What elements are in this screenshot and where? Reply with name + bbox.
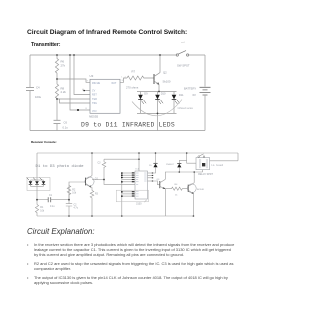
svg-text:SW SPST: SW SPST [177,63,190,67]
transistor Q2 SK100 [154,71,171,85]
capacitor C1 [48,195,55,208]
wire C3 to IC supply column [104,158,139,160]
op-amp IC1 3130 body [135,169,148,206]
battery B1 6V [184,55,211,131]
wire emitter to LED rail [158,84,160,91]
wire base node up to Q1 base [69,182,86,200]
svg-text:2: 2 [125,77,126,79]
diode D5 [149,153,158,173]
wire node A to C1 [37,199,48,201]
svg-text:270 ohms: 270 ohms [126,86,139,90]
svg-text:Infrared series: Infrared series [178,107,194,110]
transmitter heading [31,42,60,48]
photodiode group box [27,178,50,191]
resistor R2 [67,186,77,200]
svg-text:DSCHG: DSCHG [92,82,100,85]
wire photodiode cathode bus [31,185,44,187]
svg-text:D10: D10 [161,91,166,95]
wire TRG net [60,99,91,103]
title [27,29,187,36]
svg-text:RELAY SPDT: RELAY SPDT [198,173,213,176]
resistor R7 [126,69,154,89]
wire IC lower pin 7 [122,193,135,194]
junction squares on ground column [121,172,123,196]
svg-text:BATTERY: BATTERY [184,87,196,91]
wire rail to photodiode group [36,153,38,178]
svg-text:R4: R4 [175,184,179,186]
wire collector to rail [159,55,161,73]
wire photodiode anode bus [31,179,44,181]
photodiode D2 [33,178,39,187]
bullet list [26,241,28,243]
wire Q4 emitter to ground rail [192,194,194,216]
wire receiver bottom rail [37,215,195,217]
svg-text:OUT: OUT [112,82,117,85]
svg-text:6V: 6V [193,93,196,97]
resistor R3 [90,191,98,217]
capacitor C4 [26,86,42,100]
svg-text:D9 to D11 INFRARED LEDS: D9 to D11 INFRARED LEDS [81,121,175,128]
svg-text:R7: R7 [132,69,136,73]
svg-text:1N4007: 1N4007 [166,164,174,166]
svg-text:TRG: TRG [92,102,97,105]
svg-text:R3: R3 [95,193,99,195]
circuit explanation heading [27,227,95,236]
wire RST net [74,55,90,95]
op-amp U3 NE555 body [89,74,120,119]
svg-text:100u: 100u [35,95,42,99]
svg-text:1: 1 [121,77,122,79]
svg-text:C6: C6 [64,120,68,124]
relay RL1 SPDT coil [187,158,214,177]
svg-text:RST: RST [92,94,97,97]
wire C6 branch [56,99,58,131]
wire transmitter top rail [30,54,205,56]
node junction dots transmitter [56,54,161,114]
svg-text:10k: 10k [40,210,45,212]
svg-text:27k: 27k [61,63,66,67]
wire receiver top rail [37,152,238,154]
wire photodiode group to node A [36,186,38,204]
wire IC right pin d [148,181,154,182]
wire Q1 collector to rail [91,153,93,176]
IC pin name ticks left [136,173,139,196]
LED D10 [155,91,166,113]
wire IC left pin 2 [122,175,135,176]
svg-text:D1 to D3 photo diode: D1 to D3 photo diode [36,164,85,169]
wire IC left pin 4 [122,179,135,180]
svg-text:to load: to load [212,163,224,167]
wire rail to IC top [138,153,140,171]
svg-text:0.1u: 0.1u [63,126,69,130]
wire transmitter bottom rail [30,130,205,132]
svg-text:4.7u: 4.7u [74,208,79,210]
svg-text:NE555: NE555 [89,115,99,119]
capacitor C2 [66,200,79,216]
svg-text:C3: C3 [98,163,102,165]
wire rail to relay branch [186,153,188,160]
svg-text:BC548: BC548 [197,189,204,191]
wire IC lower pin 6 [122,191,135,192]
wire LED top rail [137,91,177,93]
svg-text:R1: R1 [40,207,44,209]
transistor Q1 [85,176,99,188]
diode D4 1N4007 [166,160,187,172]
svg-text:D11: D11 [179,93,184,97]
wire IC right pin b [148,175,154,176]
wire IC right pin c [148,177,154,178]
LED D11 [172,92,184,114]
capacitor C6 [54,120,69,129]
svg-text:8: 8 [86,108,88,110]
svg-text:Q3: Q3 [157,179,161,181]
resistor R1 [35,205,44,217]
wire Q4 collector to relay node [193,172,195,183]
wire IC right pin a [148,173,154,174]
svg-text:3130: 3130 [136,202,142,205]
svg-text:U3: U3 [90,74,94,78]
wire IC left pin 3 [122,177,135,178]
svg-text:Sk100: Sk100 [163,79,171,83]
LED group arc [132,100,182,116]
svg-text:Q2: Q2 [163,71,167,75]
wire IC output to Q3 base [153,181,160,185]
svg-text:THR: THR [92,98,97,101]
wire Q3 collector up to flyback node [165,172,179,179]
wire flyback node bus [179,171,202,173]
pin 7 label [87,81,89,83]
wire LED bottom rail [137,112,177,114]
svg-text:D9: D9 [144,91,148,95]
resistor R4 [172,184,188,196]
relay contact lever [198,154,205,158]
pin 8 label [86,108,88,110]
svg-text:VCC: VCC [92,110,97,113]
wire ground tie column [121,173,123,216]
wire Q1 emitter branch [91,187,93,190]
infrared series note [178,107,194,110]
svg-text:C2: C2 [74,204,78,206]
wire DSCHG to R6/R8 junction [57,79,90,82]
capacitor C3 [98,159,106,179]
wire feedback loop box [116,190,148,202]
wire left branch [29,55,31,131]
svg-text:D5: D5 [149,165,153,167]
svg-text:Q1: Q1 [95,178,99,181]
resistor R8 [55,79,66,99]
transistor Q3 [157,179,166,189]
resistor R6 [55,55,65,79]
transistor Q4 BC548 [187,183,204,194]
pin 3 label [122,80,124,82]
wire relay to load [210,153,238,167]
wire IC lower pin 8 [122,195,135,196]
wire Q3 emitter to R4 [165,189,172,216]
svg-text:CV: CV [92,90,96,93]
wire C1 to base node [51,199,69,201]
switch SW SPST [176,51,190,68]
wire Q1 collector output [92,179,104,181]
svg-text:1k: 1k [175,195,178,197]
svg-text:C1: C1 [49,195,53,197]
pin numbers R7 [121,77,125,79]
wire LED string to ground rail [157,113,159,130]
LED D9 [138,91,148,113]
photodiode D1 [27,178,33,187]
wire IC left pin 5 [122,181,135,182]
wire THR net [57,98,90,100]
wire Q1 output to IC input pin [104,180,135,185]
wire VCC net [70,55,90,110]
photo diode caption [36,164,85,169]
wire OUT to R7 [120,78,127,82]
svg-text:2.2k: 2.2k [61,90,67,94]
svg-text:C4: C4 [36,86,40,90]
infrared leds caption [81,121,175,128]
IC pin name ticks right [144,173,146,181]
wire CV stub [83,89,90,91]
node junction dots receiver [36,152,195,217]
wire IC left pin 1 [122,172,135,173]
svg-text:10k: 10k [72,193,77,195]
svg-text:0.1u: 0.1u [50,206,55,208]
svg-text:R2: R2 [72,189,76,191]
receiver heading [31,140,57,144]
photodiode D3 [40,178,46,187]
